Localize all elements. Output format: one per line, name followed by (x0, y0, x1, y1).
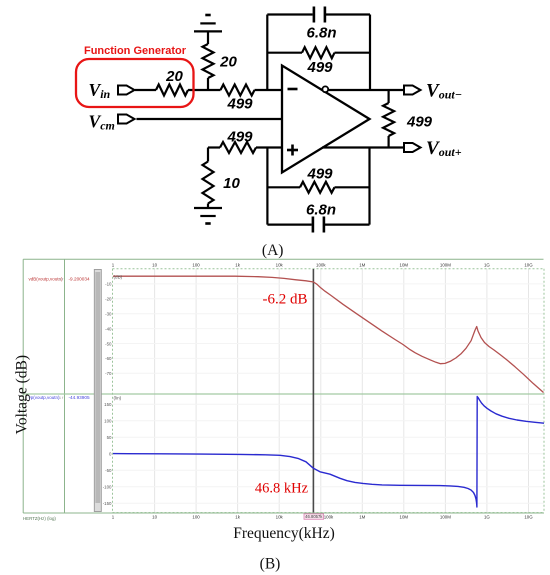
svg-text:6.8n: 6.8n (306, 25, 336, 42)
svg-text:vp(voutp,voutn): vp(voutp,voutn) (29, 395, 61, 400)
svg-text:vdB(voutp,voutn): vdB(voutp,voutn) (29, 276, 64, 281)
svg-text:100M: 100M (440, 262, 451, 267)
svg-text:10M: 10M (400, 515, 409, 520)
svg-text:499: 499 (226, 129, 253, 146)
svg-text:499: 499 (406, 114, 433, 131)
svg-text:1G: 1G (484, 515, 490, 520)
svg-text:Voltage (dB): Voltage (dB) (14, 355, 31, 434)
svg-text:-50: -50 (105, 468, 112, 473)
svg-text:(A): (A) (262, 242, 284, 259)
svg-text:50: 50 (107, 435, 112, 440)
svg-text:100k: 100k (324, 514, 334, 519)
svg-text:(B): (B) (260, 556, 281, 573)
svg-text:Frequency(kHz): Frequency(kHz) (233, 525, 335, 542)
svg-text:1k: 1k (235, 262, 240, 267)
svg-text:100: 100 (192, 262, 200, 267)
svg-text:1M: 1M (359, 515, 365, 520)
svg-text:10: 10 (223, 175, 240, 192)
svg-text:1G: 1G (484, 262, 490, 267)
svg-text:10G: 10G (524, 515, 533, 520)
svg-text:20: 20 (165, 68, 183, 85)
svg-text:HERTZ(Hz) (log): HERTZ(Hz) (log) (23, 516, 56, 521)
svg-text:499: 499 (306, 166, 333, 183)
svg-text:-50: -50 (105, 341, 112, 346)
svg-text:-70: -70 (105, 371, 112, 376)
svg-text:(dB): (dB) (114, 275, 123, 280)
svg-text:150: 150 (104, 402, 112, 407)
svg-text:-9.200034: -9.200034 (69, 276, 91, 281)
svg-text:20: 20 (219, 54, 237, 71)
svg-text:10G: 10G (524, 262, 533, 267)
svg-text:-6.2 dB: -6.2 dB (263, 292, 308, 308)
svg-text:100M: 100M (440, 515, 451, 520)
svg-text:1k: 1k (235, 515, 240, 520)
svg-text:100: 100 (104, 419, 112, 424)
svg-text:-60: -60 (105, 356, 112, 361)
svg-text:-30: -30 (105, 312, 112, 317)
svg-text:10M: 10M (400, 262, 409, 267)
svg-text:-20: -20 (105, 297, 112, 302)
svg-text:Function Generator: Function Generator (84, 45, 187, 57)
svg-text:499: 499 (226, 96, 253, 113)
svg-text:-10: -10 (105, 282, 112, 287)
svg-text:100: 100 (192, 515, 200, 520)
svg-text:-100: -100 (103, 485, 112, 490)
svg-text:-40: -40 (105, 326, 112, 331)
svg-text:10: 10 (152, 262, 157, 267)
svg-text:46.8 kHz: 46.8 kHz (255, 481, 309, 497)
svg-text:1M: 1M (359, 262, 365, 267)
svg-text:10: 10 (152, 515, 157, 520)
svg-text:10k: 10k (276, 262, 284, 267)
svg-text:6.8n: 6.8n (306, 202, 336, 219)
svg-text:100k: 100k (316, 262, 326, 267)
svg-text:(lin): (lin) (114, 396, 122, 401)
svg-text:46.8057k: 46.8057k (305, 514, 323, 519)
svg-text:-150: -150 (103, 501, 112, 506)
svg-text:-44.93905: -44.93905 (69, 395, 91, 400)
svg-text:499: 499 (306, 59, 333, 76)
svg-text:10k: 10k (276, 515, 284, 520)
